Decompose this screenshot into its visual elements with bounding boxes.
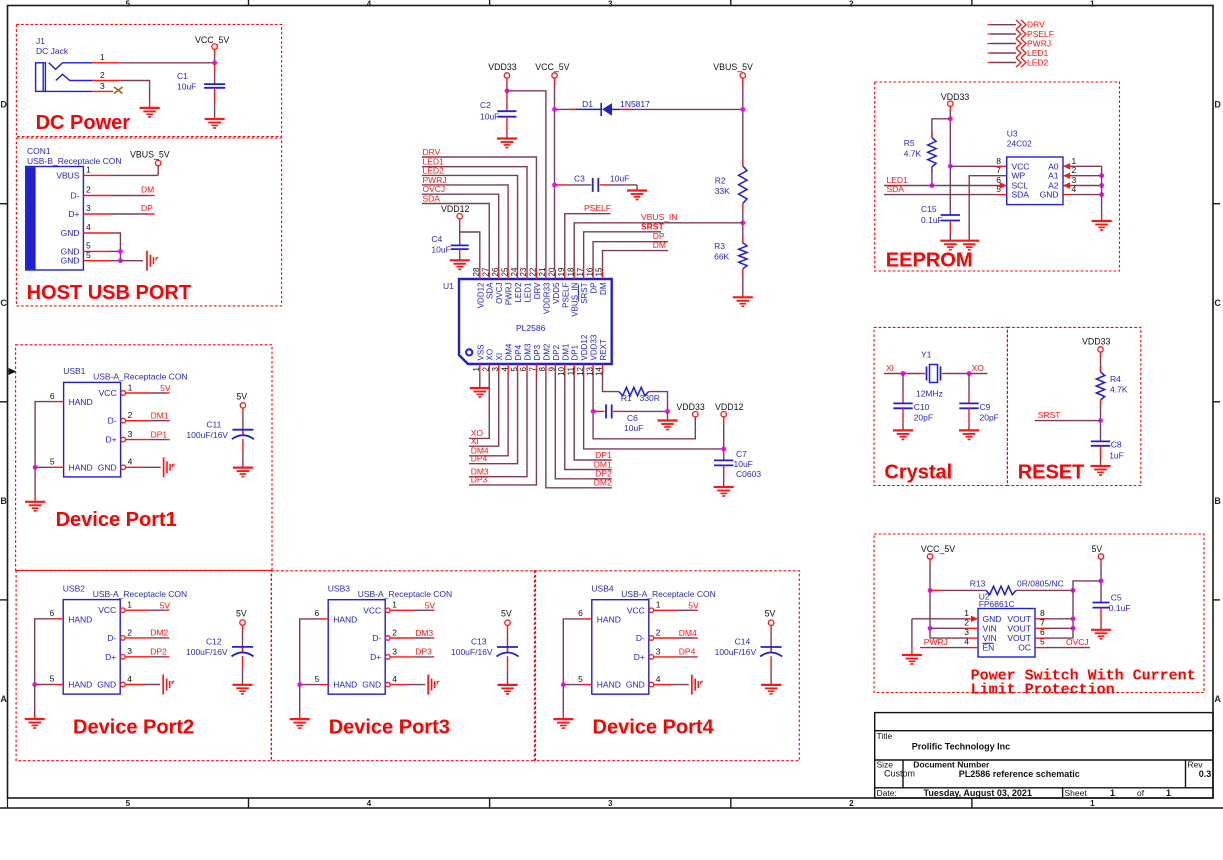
svg-text:PWRJ: PWRJ <box>1027 38 1051 48</box>
svg-text:R5: R5 <box>904 138 915 148</box>
svg-text:D-: D- <box>71 191 80 201</box>
svg-text:C9: C9 <box>980 402 991 412</box>
svg-text:HAND: HAND <box>333 680 357 690</box>
svg-text:Device Port4: Device Port4 <box>593 717 715 739</box>
svg-text:5: 5 <box>126 799 131 808</box>
svg-text:1: 1 <box>964 608 969 618</box>
svg-text:VOUT: VOUT <box>1007 633 1031 643</box>
svg-text:C5: C5 <box>1111 593 1122 603</box>
svg-text:C11: C11 <box>206 419 221 429</box>
svg-text:33K: 33K <box>715 186 730 196</box>
svg-text:10uF: 10uF <box>624 423 643 433</box>
svg-text:VDD33: VDD33 <box>590 334 599 360</box>
svg-text:D: D <box>0 100 7 110</box>
svg-text:C13: C13 <box>471 637 487 647</box>
svg-text:J1: J1 <box>36 36 45 46</box>
svg-text:DRV: DRV <box>423 147 441 157</box>
svg-text:USB1: USB1 <box>63 366 85 376</box>
svg-text:DM1: DM1 <box>561 343 570 360</box>
svg-text:5V: 5V <box>236 609 247 619</box>
svg-text:5V: 5V <box>425 601 436 611</box>
svg-text:VDD33: VDD33 <box>1082 337 1110 347</box>
svg-text:USB-A_Receptacle CON: USB-A_Receptacle CON <box>93 589 187 599</box>
svg-text:DP2: DP2 <box>552 344 561 360</box>
svg-text:SDA: SDA <box>1012 190 1030 200</box>
svg-text:USB-A_Receptacle CON: USB-A_Receptacle CON <box>358 589 452 599</box>
svg-text:USB-A_Receptacle CON: USB-A_Receptacle CON <box>93 372 187 382</box>
svg-text:Date:: Date: <box>877 788 897 798</box>
svg-text:20pF: 20pF <box>980 412 999 422</box>
svg-text:DM3: DM3 <box>415 628 433 638</box>
svg-text:C12: C12 <box>206 637 222 647</box>
svg-text:GND: GND <box>1040 190 1059 200</box>
svg-text:1: 1 <box>392 600 397 610</box>
svg-text:C: C <box>0 298 7 308</box>
svg-text:1N5817: 1N5817 <box>620 99 650 109</box>
svg-text:C4: C4 <box>431 234 442 244</box>
svg-text:CON1: CON1 <box>27 146 51 156</box>
svg-text:3: 3 <box>608 799 613 808</box>
svg-text:5: 5 <box>126 0 131 8</box>
svg-text:VDD12: VDD12 <box>715 402 743 412</box>
svg-text:VDDR33: VDDR33 <box>542 282 551 314</box>
svg-text:HOST USB PORT: HOST USB PORT <box>27 282 191 304</box>
svg-text:XI: XI <box>886 363 894 373</box>
svg-text:USB3: USB3 <box>328 583 350 593</box>
svg-text:GND: GND <box>97 680 116 690</box>
svg-text:2: 2 <box>849 0 854 8</box>
svg-text:VDD12: VDD12 <box>476 282 485 308</box>
svg-text:Title: Title <box>877 731 893 741</box>
svg-text:4: 4 <box>392 674 397 684</box>
svg-text:4: 4 <box>127 674 132 684</box>
svg-text:HAND: HAND <box>597 614 621 624</box>
svg-text:DP: DP <box>141 203 153 213</box>
svg-text:1: 1 <box>656 600 661 610</box>
svg-text:20pF: 20pF <box>914 412 933 422</box>
svg-text:XI: XI <box>471 436 479 446</box>
svg-text:C6: C6 <box>627 413 638 423</box>
svg-text:A: A <box>0 694 7 704</box>
svg-text:RESET: RESET <box>1018 462 1085 484</box>
svg-text:USB-A_Receptacle CON: USB-A_Receptacle CON <box>621 589 715 599</box>
svg-text:1: 1 <box>127 600 132 610</box>
svg-text:SDA: SDA <box>423 194 441 204</box>
svg-text:4: 4 <box>367 799 372 808</box>
svg-text:Custom: Custom <box>884 769 915 779</box>
svg-text:2: 2 <box>86 185 91 195</box>
svg-text:6: 6 <box>50 391 55 401</box>
svg-text:C1: C1 <box>177 71 188 81</box>
svg-text:DM2: DM2 <box>542 343 551 360</box>
svg-text:LED1: LED1 <box>1027 48 1049 58</box>
svg-text:330R: 330R <box>640 393 660 403</box>
svg-text:OVCJ: OVCJ <box>495 283 504 304</box>
svg-text:REXT: REXT <box>599 339 608 360</box>
svg-text:5: 5 <box>49 674 54 684</box>
svg-text:1: 1 <box>1166 788 1171 798</box>
svg-text:VDD33: VDD33 <box>676 402 704 412</box>
svg-text:DP3: DP3 <box>415 647 432 657</box>
svg-text:HAND: HAND <box>68 680 92 690</box>
svg-text:4: 4 <box>86 222 91 232</box>
svg-text:0.1uF: 0.1uF <box>921 215 943 225</box>
svg-text:7: 7 <box>996 165 1001 175</box>
svg-text:2: 2 <box>849 799 854 808</box>
svg-text:3: 3 <box>100 81 105 91</box>
svg-text:10uF: 10uF <box>610 174 629 184</box>
svg-text:U3: U3 <box>1007 129 1018 139</box>
svg-text:DM: DM <box>653 240 666 250</box>
svg-text:VBUS_5V: VBUS_5V <box>130 150 170 160</box>
svg-text:DC Jack: DC Jack <box>36 46 69 56</box>
svg-text:1uF: 1uF <box>1109 451 1124 461</box>
svg-text:B: B <box>0 496 7 506</box>
svg-text:VSS: VSS <box>476 344 485 360</box>
svg-text:PSELF: PSELF <box>584 203 611 213</box>
svg-text:0R/0805/NC: 0R/0805/NC <box>1017 579 1064 589</box>
svg-text:5: 5 <box>86 250 91 260</box>
svg-text:VCC: VCC <box>98 605 116 615</box>
svg-text:3: 3 <box>656 646 661 656</box>
svg-text:Tuesday, August 03, 2021: Tuesday, August 03, 2021 <box>924 788 1032 798</box>
svg-text:VDD5: VDD5 <box>552 282 561 304</box>
svg-text:VDD33: VDD33 <box>488 62 516 72</box>
svg-text:DP3: DP3 <box>533 344 542 360</box>
svg-text:1: 1 <box>1110 788 1115 798</box>
svg-text:1: 1 <box>1090 0 1095 8</box>
svg-text:C: C <box>1214 298 1221 308</box>
svg-text:VCC: VCC <box>99 388 117 398</box>
svg-text:GND: GND <box>61 228 80 238</box>
svg-text:100uF/16V: 100uF/16V <box>451 647 493 657</box>
svg-text:1: 1 <box>1090 799 1095 808</box>
svg-text:D1: D1 <box>582 99 593 109</box>
svg-text:D-: D- <box>372 633 381 643</box>
svg-text:USB2: USB2 <box>63 583 85 593</box>
svg-text:LED2: LED2 <box>423 165 445 175</box>
svg-text:HAND: HAND <box>69 462 93 472</box>
svg-text:DP3: DP3 <box>471 475 488 485</box>
svg-text:0.1uF: 0.1uF <box>1109 603 1131 613</box>
svg-text:6: 6 <box>49 608 54 618</box>
svg-text:Prolific Technology Inc: Prolific Technology Inc <box>912 742 1010 752</box>
svg-text:EEPROM: EEPROM <box>886 250 973 272</box>
svg-text:D+: D+ <box>105 652 116 662</box>
svg-text:DRV: DRV <box>533 282 542 299</box>
svg-text:66K: 66K <box>714 252 729 262</box>
svg-text:1: 1 <box>100 52 105 62</box>
svg-text:Y1: Y1 <box>921 350 932 360</box>
svg-text:R2: R2 <box>715 176 726 186</box>
svg-text:SDA: SDA <box>486 282 495 299</box>
svg-text:100uF/16V: 100uF/16V <box>186 430 228 440</box>
svg-text:D+: D+ <box>68 209 79 219</box>
svg-text:5V: 5V <box>765 609 776 619</box>
svg-text:DM: DM <box>141 185 154 195</box>
svg-text:SRST: SRST <box>1038 410 1061 420</box>
svg-text:5V: 5V <box>501 609 512 619</box>
svg-text:1: 1 <box>86 165 91 175</box>
svg-text:HAND: HAND <box>597 680 621 690</box>
svg-text:Device Port3: Device Port3 <box>329 717 450 739</box>
svg-text:Device Port1: Device Port1 <box>56 509 177 531</box>
svg-text:6: 6 <box>578 608 583 618</box>
svg-text:USB4: USB4 <box>591 583 613 593</box>
svg-text:12MHz: 12MHz <box>916 389 943 399</box>
svg-text:VCC: VCC <box>363 605 381 615</box>
svg-text:DC Power: DC Power <box>36 112 131 134</box>
svg-text:4: 4 <box>656 674 661 684</box>
svg-text:1: 1 <box>128 382 133 392</box>
svg-text:LED2: LED2 <box>514 282 523 303</box>
svg-text:DM4: DM4 <box>679 628 697 638</box>
svg-text:LED1: LED1 <box>524 282 533 303</box>
svg-text:10uF: 10uF <box>734 459 753 469</box>
svg-text:C10: C10 <box>914 402 930 412</box>
svg-text:D+: D+ <box>105 435 116 445</box>
svg-text:4: 4 <box>367 0 372 8</box>
svg-text:3: 3 <box>608 0 613 8</box>
svg-text:FP6861C: FP6861C <box>979 599 1015 609</box>
svg-text:D+: D+ <box>634 652 645 662</box>
svg-text:B: B <box>1214 496 1221 506</box>
svg-text:PSELF: PSELF <box>1027 29 1054 39</box>
svg-text:SRST: SRST <box>641 221 664 231</box>
svg-text:DM1: DM1 <box>151 411 169 421</box>
svg-text:C7: C7 <box>736 449 747 459</box>
svg-text:C14: C14 <box>735 637 751 647</box>
svg-text:GND: GND <box>626 680 645 690</box>
svg-text:100uF/16V: 100uF/16V <box>715 647 757 657</box>
svg-text:10uF: 10uF <box>431 245 450 255</box>
svg-text:PL2586 reference schematic: PL2586 reference schematic <box>959 769 1080 779</box>
svg-text:Crystal: Crystal <box>884 462 952 484</box>
svg-text:DP2: DP2 <box>150 647 167 657</box>
svg-text:DP4: DP4 <box>471 454 488 464</box>
svg-text:USB-B_Receptacle CON: USB-B_Receptacle CON <box>27 156 121 166</box>
svg-text:4: 4 <box>128 457 133 467</box>
svg-text:A: A <box>1214 694 1221 704</box>
svg-text:GND: GND <box>98 462 117 472</box>
svg-text:100uF/16V: 100uF/16V <box>186 647 228 657</box>
svg-text:5V: 5V <box>160 383 171 393</box>
svg-text:0.3: 0.3 <box>1199 769 1212 779</box>
svg-text:DM3: DM3 <box>524 343 533 360</box>
svg-text:U1: U1 <box>443 281 454 291</box>
svg-text:DP1: DP1 <box>595 450 612 460</box>
svg-text:D: D <box>1214 100 1221 110</box>
svg-text:GND: GND <box>983 614 1002 624</box>
svg-text:R4: R4 <box>1110 374 1121 384</box>
svg-text:24C02: 24C02 <box>1007 139 1032 149</box>
svg-text:5V: 5V <box>236 391 247 401</box>
svg-text:OVCJ: OVCJ <box>1066 637 1089 647</box>
svg-text:GND: GND <box>61 256 80 266</box>
svg-text:D-: D- <box>108 416 117 426</box>
svg-text:VBUS: VBUS <box>56 170 79 180</box>
svg-text:2: 2 <box>127 627 132 637</box>
svg-text:C0603: C0603 <box>736 469 761 479</box>
svg-text:DP4: DP4 <box>679 647 696 657</box>
svg-text:HAND: HAND <box>333 614 357 624</box>
svg-text:3: 3 <box>128 429 133 439</box>
svg-text:D-: D- <box>107 633 116 643</box>
svg-text:4.7K: 4.7K <box>904 149 922 159</box>
svg-text:DM4: DM4 <box>505 343 514 360</box>
svg-text:VOUT: VOUT <box>1007 623 1031 633</box>
svg-text:DP1: DP1 <box>571 344 580 360</box>
svg-text:5: 5 <box>314 674 319 684</box>
svg-text:GND: GND <box>362 680 381 690</box>
svg-text:2: 2 <box>392 627 397 637</box>
svg-text:R13: R13 <box>970 579 986 589</box>
svg-text:C15: C15 <box>921 204 937 214</box>
svg-text:EN: EN <box>983 643 995 653</box>
svg-text:VOUT: VOUT <box>1007 614 1031 624</box>
svg-text:VBUS_5V: VBUS_5V <box>713 62 753 72</box>
svg-text:C8: C8 <box>1111 440 1122 450</box>
svg-text:R1: R1 <box>621 393 632 403</box>
svg-text:PL2586: PL2586 <box>516 323 546 333</box>
svg-text:3: 3 <box>127 646 132 656</box>
svg-text:SDA: SDA <box>887 184 905 194</box>
svg-text:10uF: 10uF <box>480 112 499 122</box>
svg-text:XI: XI <box>495 353 504 361</box>
svg-text:DP4: DP4 <box>514 344 523 360</box>
svg-text:10uF: 10uF <box>177 82 196 92</box>
svg-text:VIN: VIN <box>983 623 997 633</box>
svg-text:5: 5 <box>578 674 583 684</box>
svg-text:VDD33: VDD33 <box>941 92 969 102</box>
svg-text:DM2: DM2 <box>150 628 168 638</box>
svg-text:2: 2 <box>656 627 661 637</box>
svg-text:VBUS_IN: VBUS_IN <box>641 212 677 222</box>
svg-text:5: 5 <box>50 457 55 467</box>
svg-text:D-: D- <box>636 633 645 643</box>
svg-text:C2: C2 <box>480 100 491 110</box>
svg-text:LED2: LED2 <box>1027 57 1049 67</box>
svg-text:6: 6 <box>314 608 319 618</box>
svg-text:2: 2 <box>128 410 133 420</box>
svg-text:A1: A1 <box>1048 171 1059 181</box>
svg-text:Sheet: Sheet <box>1065 788 1088 798</box>
svg-text:DM: DM <box>599 282 608 295</box>
svg-text:WP: WP <box>1012 171 1026 181</box>
svg-text:5V: 5V <box>160 600 171 610</box>
svg-text:PSELF: PSELF <box>561 282 570 307</box>
svg-text:PWRJ: PWRJ <box>924 637 948 647</box>
svg-text:5V: 5V <box>1092 544 1103 554</box>
svg-text:DM1: DM1 <box>594 459 612 469</box>
svg-text:XO: XO <box>972 363 985 373</box>
svg-text:OC: OC <box>1018 643 1031 653</box>
svg-text:VCC_5V: VCC_5V <box>195 35 229 45</box>
svg-text:SRST: SRST <box>580 282 589 303</box>
svg-text:DP: DP <box>590 283 599 294</box>
svg-text:PWRJ: PWRJ <box>505 283 514 306</box>
svg-text:VDD12: VDD12 <box>441 204 469 214</box>
svg-text:Limit Protection: Limit Protection <box>971 682 1115 699</box>
svg-text:VDD12: VDD12 <box>580 334 589 360</box>
svg-text:D+: D+ <box>370 652 381 662</box>
svg-text:HAND: HAND <box>68 614 92 624</box>
svg-text:4.7K: 4.7K <box>1110 385 1128 395</box>
svg-text:8: 8 <box>1040 608 1045 618</box>
svg-text:3: 3 <box>392 646 397 656</box>
svg-text:3: 3 <box>86 203 91 213</box>
svg-text:VCC_5V: VCC_5V <box>921 544 955 554</box>
svg-text:2: 2 <box>100 70 105 80</box>
svg-text:VCC_5V: VCC_5V <box>535 62 569 72</box>
svg-text:of: of <box>1137 788 1145 798</box>
svg-text:HAND: HAND <box>69 397 93 407</box>
svg-text:Device Port2: Device Port2 <box>73 717 194 739</box>
svg-text:VIN: VIN <box>983 633 997 643</box>
svg-text:5V: 5V <box>688 601 699 611</box>
svg-text:XO: XO <box>486 349 495 361</box>
svg-text:DP1: DP1 <box>151 429 168 439</box>
svg-text:VCC: VCC <box>627 605 645 615</box>
svg-text:R3: R3 <box>714 241 725 251</box>
svg-text:C3: C3 <box>574 174 585 184</box>
